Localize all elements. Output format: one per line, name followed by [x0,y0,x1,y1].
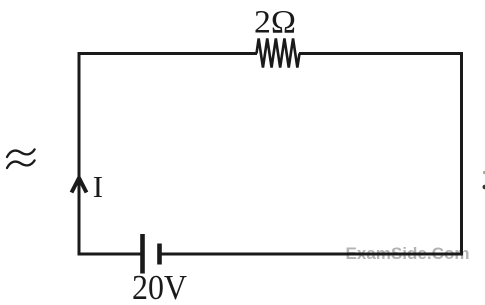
svg-text:2Ω: 2Ω [254,5,296,41]
svg-text:20V: 20V [132,268,187,305]
svg-text:I: I [93,169,103,204]
